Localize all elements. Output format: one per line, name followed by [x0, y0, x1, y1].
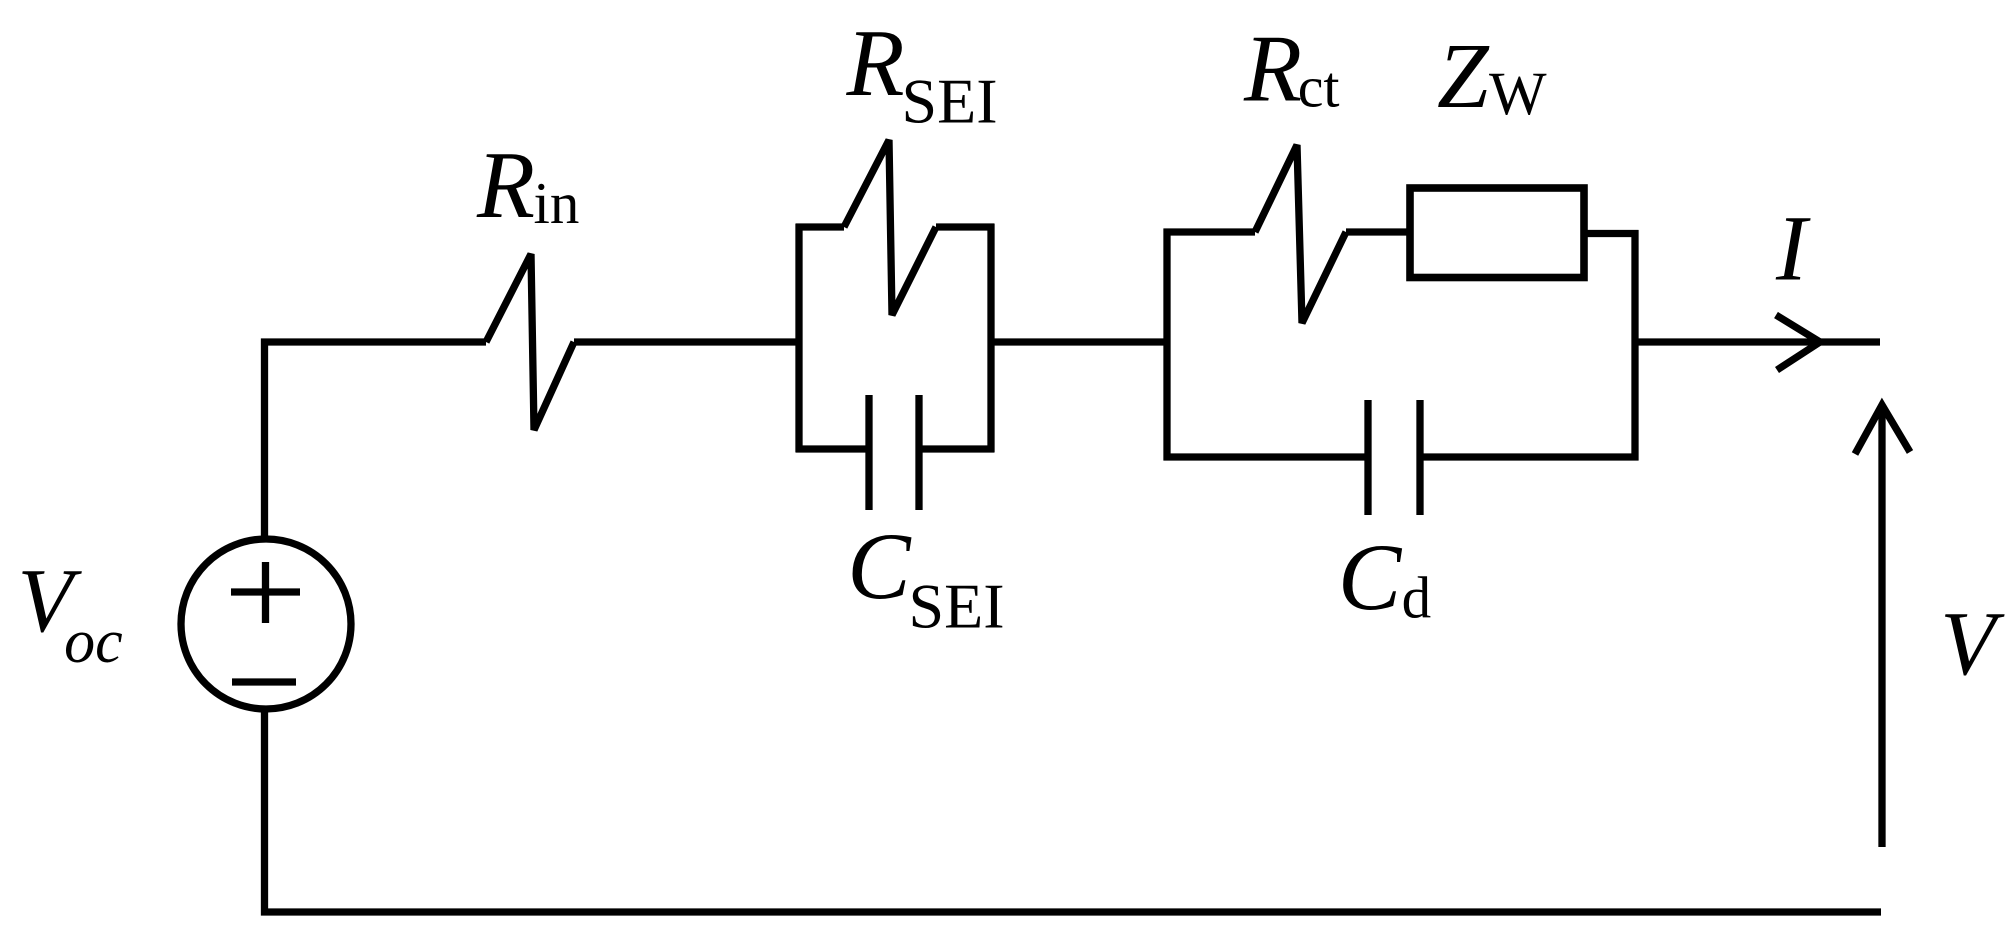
svg-text:in: in	[534, 170, 580, 236]
svg-text:C: C	[1338, 524, 1403, 630]
wire from source top terminal up and right to R_in	[265, 342, 487, 541]
resistor R_SEI	[844, 140, 936, 315]
capacitor C_d left plate	[1364, 400, 1371, 515]
svg-text:oc: oc	[64, 608, 123, 676]
svg-text:V: V	[1940, 593, 2005, 694]
capacitor C_SEI right plate	[915, 395, 922, 510]
wire from Z_W box to right bar	[1584, 230, 1639, 237]
svg-text:R: R	[846, 10, 905, 116]
svg-text:SEI: SEI	[902, 66, 998, 137]
wire: ct block bottom branch right	[1420, 453, 1639, 460]
svg-text:C: C	[847, 513, 912, 619]
capacitor C_SEI left plate	[865, 395, 872, 510]
svg-text:SEI: SEI	[909, 570, 1005, 641]
svg-text:R: R	[1243, 16, 1302, 122]
voltage arrow V head	[1855, 405, 1910, 454]
voltage arrow V line	[1878, 408, 1885, 847]
arrowhead of current I	[1776, 315, 1820, 370]
wire: SEI block bottom branch left	[796, 445, 870, 452]
Warburg impedance Z_W box	[1410, 188, 1584, 278]
wire from R_in to SEI block	[574, 338, 803, 345]
wire: SEI block top branch right stub	[936, 223, 995, 230]
wire from SEI block to ct block	[991, 338, 1171, 345]
svg-text:Z: Z	[1437, 25, 1490, 128]
wire: output to the right with current direction	[1635, 338, 1880, 345]
svg-text:R: R	[476, 132, 535, 238]
node: ct block right bar	[1631, 230, 1638, 461]
wire: ct block top branch left stub	[1164, 228, 1256, 235]
wire from source bottom terminal down and along bottom rail	[265, 708, 1882, 912]
svg-text:I: I	[1775, 198, 1811, 301]
node: SEI block left bar	[795, 224, 802, 452]
wire: SEI block top branch left stub	[796, 223, 845, 230]
capacitor C_d right plate	[1416, 400, 1423, 515]
resistor R_in	[486, 254, 574, 430]
voltage source plus sign	[231, 562, 300, 623]
svg-text:W: W	[1489, 61, 1547, 128]
wire: SEI block bottom branch right	[919, 445, 995, 452]
node: SEI block right bar	[987, 224, 994, 452]
svg-text:d: d	[1402, 564, 1432, 630]
node: ct block left bar	[1163, 229, 1170, 461]
resistor R_ct	[1255, 145, 1346, 323]
wire: ct block bottom branch left	[1164, 453, 1369, 460]
voltage source V_oc circle	[181, 539, 351, 709]
voltage source minus sign	[232, 678, 296, 685]
wire from R_ct to Z_W box	[1346, 228, 1410, 235]
svg-text:ct: ct	[1298, 55, 1340, 120]
